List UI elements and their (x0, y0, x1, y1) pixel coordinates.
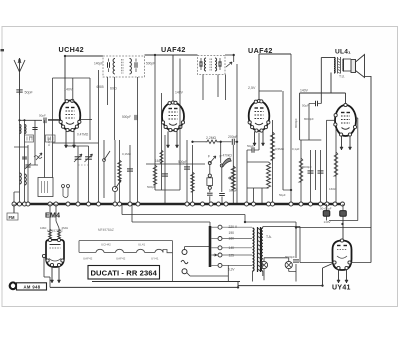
wire tuning to grid (77, 146, 79, 150)
wire FM earth (27, 145, 29, 204)
wire grid row through V1 (48, 119, 60, 121)
capacitor small (22, 156, 27, 158)
bus junction x=226 (224, 202, 228, 206)
bus junction x=78 (76, 202, 80, 206)
antenna (14, 58, 25, 95)
FM terminal (7, 213, 18, 220)
wire HT secondary to rectifier (262, 227, 264, 229)
capacitor 50pF grid (43, 118, 45, 124)
bottom return wire mid (238, 285, 323, 287)
svg-text:MF4978AZ: MF4978AZ (47, 229, 63, 233)
bus junction x=335 (333, 202, 337, 206)
wire EM4 side lug down (43, 258, 45, 277)
capacitor 0.1uF (34, 120, 36, 165)
grid line antenna to V1 (20, 119, 43, 121)
tube V6 EM4 tuning eye (42, 238, 64, 267)
dial scale scalloped line (79, 251, 96, 253)
wire bus step down (121, 204, 123, 215)
mains taps (218, 225, 222, 229)
bus junction x=187 (185, 202, 189, 206)
capacitor 140pF (T1 secondary) (134, 62, 136, 68)
tube V3 UAF42 det/AF (248, 99, 270, 132)
capacitor 140pF (T1 primary) (107, 62, 109, 68)
bus junction x=192.5 (191, 202, 195, 206)
svg-text:6985: 6985 (97, 85, 104, 89)
svg-text:69Ω: 69Ω (110, 87, 117, 91)
svg-text:1640: 1640 (155, 159, 162, 163)
capacitor 500pF (134, 115, 136, 120)
wire anode UAF42 det (258, 54, 260, 100)
heater pins V1 (65, 131, 67, 148)
lamp wires (264, 257, 289, 259)
bus junction x=291 (289, 202, 293, 206)
antenna coupling capacitor 50pF (16, 89, 22, 91)
svg-text:UY41: UY41 (332, 285, 351, 292)
aerial coil L1 (19, 95, 21, 204)
dial lamp 2 (285, 261, 292, 268)
svg-text:UAF42: UAF42 (161, 45, 186, 54)
svg-text:140: 140 (229, 246, 235, 250)
bus junction x=138 (136, 202, 140, 206)
svg-text:0.47MΩ: 0.47MΩ (77, 133, 89, 137)
heater pins V2 (167, 132, 169, 149)
heater chain wire (227, 276, 229, 282)
bus junction x=301 (299, 202, 303, 206)
svg-text:UAF42: UAF42 (116, 256, 126, 260)
wire V4 right pin rail (356, 117, 358, 119)
bus junction x=246.5 (245, 202, 249, 206)
transformer secondary (261, 228, 263, 271)
band switch S1 (103, 159, 106, 162)
wire HT rail to UL41 (300, 92, 346, 94)
filter capacitor 50uF (323, 211, 330, 217)
svg-text:140V: 140V (300, 89, 309, 93)
bus junction x=68 (66, 202, 70, 206)
wire link (14, 146, 28, 148)
svg-text:300pF: 300pF (229, 189, 238, 193)
svg-text:2,2MΩ: 2,2MΩ (206, 136, 217, 140)
switch contacts (62, 185, 65, 188)
wire V4 grid in (327, 119, 336, 121)
resistor 2M (55, 204, 57, 221)
svg-text:200pF: 200pF (228, 135, 238, 139)
svg-text:T.A.: T.A. (266, 235, 272, 239)
wire OT primary (321, 57, 334, 59)
wave switch (34, 156, 42, 159)
svg-text:AM 948: AM 948 (23, 285, 40, 290)
oscillator coil L2 secondary (25, 174, 27, 185)
bus junction x=14 (12, 202, 16, 206)
heater pins V4 (341, 136, 343, 151)
mains wires (184, 247, 186, 250)
svg-text:140pF: 140pF (94, 62, 103, 66)
svg-text:8000pF: 8000pF (285, 255, 295, 259)
junction dot (342, 223, 344, 225)
svg-text:500pF: 500pF (178, 160, 187, 164)
junction dot (192, 141, 194, 143)
mains terminal bottom (182, 269, 187, 274)
bus junction x=98.5 (97, 202, 101, 206)
grid stopper (300, 139, 322, 141)
coil shield box 2 (46, 135, 56, 142)
bus junction x=218.5 (217, 202, 221, 206)
svg-text:FM: FM (9, 215, 16, 220)
svg-text:50+50µF: 50+50µF (320, 206, 332, 210)
bus junction x=115 (113, 202, 117, 206)
junction dot (322, 285, 324, 287)
junction dot (64, 55, 66, 57)
heater pins V3 (254, 132, 256, 147)
svg-text:50µF: 50µF (279, 193, 286, 197)
logo roundel (10, 283, 17, 290)
gang link (78, 164, 89, 166)
wires right columns (282, 91, 284, 190)
svg-text:160Ω: 160Ω (329, 187, 337, 191)
svg-text:DUCATI - RR 2364: DUCATI - RR 2364 (90, 268, 157, 277)
svg-text:50µF: 50µF (247, 144, 254, 148)
loudspeaker (351, 55, 365, 78)
bus junction x=253.5 (252, 202, 256, 206)
tube V4 UL41 output pentode (334, 103, 357, 136)
wire: UCH42 anode to IFT1 (65, 55, 103, 57)
mains switch chain (209, 165, 211, 174)
svg-text:50: 50 (30, 135, 34, 139)
svg-text:500pF: 500pF (122, 115, 131, 119)
svg-text:T.U.: T.U. (339, 75, 345, 79)
IF transformer T1 (dashed shield) (103, 56, 145, 77)
heater pins EM4 (51, 267, 53, 284)
bottom return wire low (50, 286, 238, 288)
bus junction x=320.5 (319, 202, 323, 206)
svg-text:UL4₁: UL4₁ (335, 49, 351, 56)
resistor screen (118, 160, 122, 180)
svg-text:470kΩ: 470kΩ (223, 154, 233, 158)
wire UY41 right pin to rail (351, 262, 371, 264)
trimmer capacitor (25, 164, 30, 166)
bus junction x=119.5 (118, 202, 122, 206)
capacitor 50uF cathode (162, 173, 168, 175)
bus junction x=130 (128, 202, 132, 206)
svg-text:50pF: 50pF (39, 114, 46, 118)
wire transformer bottoms (252, 271, 254, 282)
svg-text:0,1µF: 0,1µF (292, 147, 300, 151)
wire column (98, 70, 100, 204)
bus junction x=19.5 (18, 202, 22, 206)
tube V5 UY41 rectifier (333, 239, 352, 270)
bus junction x=50 (48, 202, 52, 206)
junction dot (295, 227, 297, 229)
svg-text:2,5V: 2,5V (248, 86, 256, 90)
svg-text:8000pF: 8000pF (304, 117, 314, 121)
bus junction x=28 (26, 202, 30, 206)
voltage selector bar (209, 226, 212, 267)
svg-text:190: 190 (229, 231, 235, 235)
svg-text:8000pF: 8000pF (294, 118, 298, 128)
svg-text:UY41: UY41 (151, 256, 159, 260)
svg-text:500pF: 500pF (147, 185, 156, 189)
tuning capacitor C2 (variable) (88, 150, 90, 204)
svg-text:160: 160 (229, 237, 235, 241)
aerial coil L1 secondary (24, 120, 26, 204)
tube V1 UCH42 triode-hexode (59, 99, 81, 131)
svg-text:50pF: 50pF (25, 91, 34, 95)
resistor AVC (191, 172, 195, 192)
anode load resistor (272, 120, 274, 164)
junction dot (154, 54, 156, 56)
output transformer T.U. (334, 57, 345, 79)
transformer core (257, 227, 259, 272)
svg-text:0,1MΩ: 0,1MΩ (122, 152, 132, 156)
svg-text:50µF: 50µF (302, 104, 309, 108)
bus junction x=327 (325, 202, 329, 206)
IF transformer T2 (dashed shield) (198, 56, 226, 75)
bus junction x=310.5 (309, 202, 313, 206)
wire B+ right rail (370, 76, 372, 263)
bottom wire under nameplate (92, 281, 240, 283)
wire long 1640 (146, 163, 205, 165)
anode feed capacitor 8000pF (295, 222, 297, 258)
svg-text:140V: 140V (175, 91, 184, 95)
capacitor 8000pF (127, 168, 133, 170)
heater pins V5 (338, 270, 340, 283)
svg-text:140V: 140V (64, 88, 73, 92)
resistor 0.5M (299, 158, 303, 182)
svg-text:140V: 140V (324, 220, 331, 224)
chassis strip outline (78, 241, 80, 253)
capacitor (T2 primary) (199, 61, 201, 67)
svg-text:F: F (208, 155, 210, 159)
bus junction x=202.5 (201, 202, 205, 206)
capacitor 8000pF (308, 170, 314, 172)
capacitor 500pF (184, 166, 190, 168)
junction dot (220, 141, 222, 143)
chassis / earth bus (12, 203, 344, 205)
wire T2 secondary to detector diode (225, 54, 234, 56)
resistor 5M (49, 204, 51, 240)
AC symbol (181, 260, 188, 263)
wire AF line (193, 141, 206, 143)
tube V2 UAF42 IF amp (161, 101, 184, 132)
padder box (38, 178, 53, 197)
bus junction x=272.5 (271, 202, 275, 206)
bus junction x=342.5 (341, 202, 345, 206)
bus junction x=88.5 (87, 202, 91, 206)
box AM 948 (17, 283, 47, 290)
coil shield box 1 (25, 135, 34, 142)
volume potentiometer (232, 145, 234, 204)
svg-text:8000pF: 8000pF (302, 165, 312, 169)
capacitor 8000pF (318, 170, 324, 172)
svg-text:UAF42: UAF42 (83, 256, 93, 260)
svg-text:MF4978AZ: MF4978AZ (98, 228, 114, 232)
mains terminal top (182, 250, 187, 255)
junction dot (237, 286, 239, 288)
wire OT secondary return (344, 70, 351, 72)
tone network box (247, 161, 269, 163)
svg-text:UCH42: UCH42 (101, 242, 111, 246)
capacitor 50uF (251, 147, 253, 153)
resistor 1k cathode (153, 165, 157, 185)
selector plug arrow (213, 254, 217, 256)
bus junction x=268.5 (267, 202, 271, 206)
wire column (44, 120, 46, 177)
tuning capacitor C1 (variable) (77, 150, 79, 204)
svg-text:EM4: EM4 (45, 213, 60, 220)
junction dot (244, 221, 246, 223)
wire: screen supply box (53, 77, 91, 79)
wire taps bottom (227, 265, 229, 276)
transformer T.A. primary (253, 228, 255, 271)
bus junction x=24.5 (23, 202, 27, 206)
dial lamp 1 (260, 261, 267, 268)
bus junction x=56 (54, 202, 58, 206)
svg-text:UCH42: UCH42 (59, 45, 85, 54)
wire row under V2 (155, 189, 180, 191)
cathode resistor UL41 (335, 128, 337, 204)
wire T1 to T2 (145, 54, 198, 56)
svg-text:500pF: 500pF (146, 62, 155, 66)
filter capacitor 50uF b (340, 211, 347, 217)
capacitor coupling (315, 101, 317, 107)
svg-text:6,3V: 6,3V (228, 268, 235, 272)
capacitor (T2 secondary) (218, 61, 220, 67)
svg-text:220 V: 220 V (229, 225, 238, 229)
wires tone box to bus (246, 188, 248, 204)
AVC / cathode network wires (119, 140, 121, 204)
svg-text:125: 125 (229, 254, 235, 258)
bus junction x=211 (209, 202, 213, 206)
junction dot (236, 141, 238, 143)
oscillator coil L2 (20, 173, 22, 184)
junction dot (290, 189, 292, 191)
junction dot (233, 54, 235, 56)
nameplate DUCATI RR 2364 (88, 266, 160, 280)
svg-text:UL41: UL41 (138, 242, 146, 246)
